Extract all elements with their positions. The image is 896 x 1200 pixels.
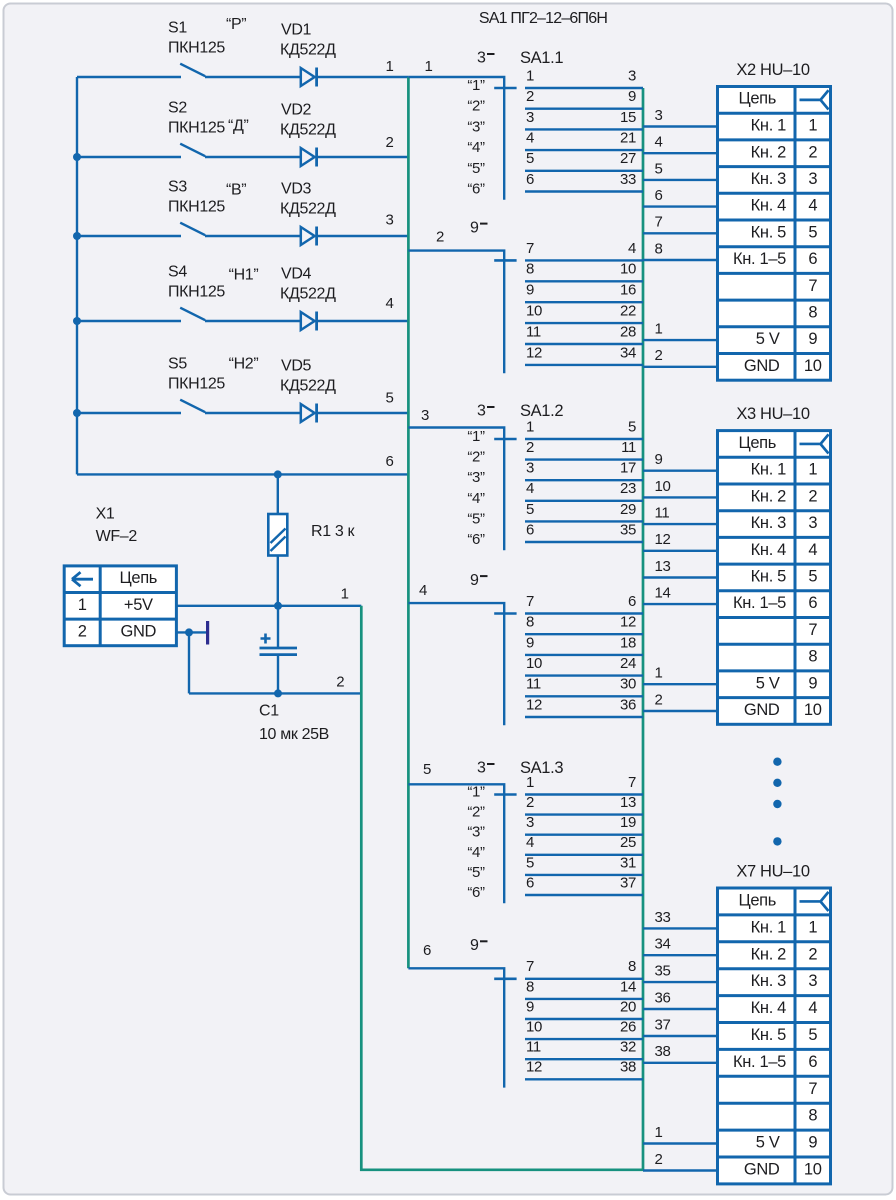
svg-text:WF–2: WF–2 bbox=[96, 528, 138, 545]
svg-text:S1: S1 bbox=[168, 20, 187, 37]
svg-text:“5”: “5” bbox=[467, 160, 485, 177]
svg-text:7: 7 bbox=[526, 593, 534, 610]
svg-text:7: 7 bbox=[655, 214, 663, 231]
svg-text:1: 1 bbox=[425, 58, 433, 75]
svg-text:X7 HU–10: X7 HU–10 bbox=[736, 863, 810, 881]
svg-text:S4: S4 bbox=[168, 264, 187, 281]
svg-text:1: 1 bbox=[808, 918, 817, 936]
wire bundle to X7 row bbox=[643, 981, 718, 983]
svg-text:3: 3 bbox=[477, 50, 486, 67]
svg-text:2: 2 bbox=[526, 794, 534, 811]
svg-text:10: 10 bbox=[620, 261, 636, 278]
svg-text:Цепь: Цепь bbox=[738, 891, 776, 909]
svg-text:37: 37 bbox=[620, 874, 636, 891]
svg-text:9: 9 bbox=[526, 282, 534, 299]
svg-text:R1 3 к: R1 3 к bbox=[311, 523, 355, 540]
svg-text:4: 4 bbox=[386, 295, 394, 312]
svg-text:Кн. 3: Кн. 3 bbox=[751, 170, 786, 188]
svg-text:Кн. 1: Кн. 1 bbox=[751, 117, 786, 135]
svg-text:Кн. 5: Кн. 5 bbox=[751, 1026, 786, 1044]
svg-text:2: 2 bbox=[386, 134, 394, 151]
svg-text:9: 9 bbox=[470, 937, 479, 954]
wire bundle to X3 row bbox=[643, 576, 718, 578]
svg-text:“Д”: “Д” bbox=[228, 118, 248, 135]
svg-text:“5”: “5” bbox=[467, 510, 485, 527]
contact line pin 5 bbox=[525, 520, 643, 522]
contact line pin 1 bbox=[525, 793, 643, 795]
svg-text:10: 10 bbox=[804, 701, 822, 719]
svg-text:5 V: 5 V bbox=[756, 330, 780, 348]
wire bundle to X2 row bbox=[643, 125, 718, 127]
svg-text:3: 3 bbox=[808, 514, 817, 532]
wire exit 3 to switch deck bbox=[408, 428, 504, 551]
svg-text:3: 3 bbox=[386, 211, 394, 228]
svg-text:26: 26 bbox=[620, 1019, 636, 1036]
svg-text:20: 20 bbox=[620, 998, 636, 1015]
svg-text:S3: S3 bbox=[168, 179, 187, 196]
svg-text:“Н2”: “Н2” bbox=[229, 356, 259, 373]
connector X1 table bbox=[64, 566, 176, 646]
junction node 1 (C1 top) bbox=[274, 602, 282, 610]
svg-text:4: 4 bbox=[526, 834, 534, 851]
svg-text:“5”: “5” bbox=[467, 864, 485, 881]
svg-text:9: 9 bbox=[655, 451, 663, 468]
svg-text:7: 7 bbox=[628, 774, 636, 791]
svg-text:VD5: VD5 bbox=[281, 358, 312, 375]
svg-text:33: 33 bbox=[655, 909, 671, 926]
svg-text:10 мк 25В: 10 мк 25В bbox=[259, 726, 329, 743]
svg-text:10: 10 bbox=[526, 303, 542, 320]
svg-text:5: 5 bbox=[526, 501, 534, 518]
svg-text:38: 38 bbox=[655, 1043, 671, 1060]
svg-text:9: 9 bbox=[808, 674, 817, 692]
svg-text:32: 32 bbox=[620, 1039, 636, 1056]
contact line pin 9 bbox=[525, 654, 643, 656]
svg-text:КД522Д: КД522Д bbox=[280, 286, 336, 303]
contact line pin 4 bbox=[525, 854, 643, 856]
capacitor C1 polarized bbox=[260, 634, 298, 655]
switch S1 symbol bbox=[77, 64, 301, 77]
group bundle line (left) bbox=[407, 77, 410, 968]
svg-text:38: 38 bbox=[620, 1059, 636, 1076]
connector X7 table bbox=[718, 888, 831, 1184]
svg-text:6: 6 bbox=[526, 171, 534, 188]
junction on left bus row S5 bbox=[73, 409, 81, 417]
svg-text:6: 6 bbox=[386, 453, 394, 470]
svg-text:SA1.1: SA1.1 bbox=[520, 49, 563, 67]
common contact label 9&#175; bbox=[470, 219, 488, 236]
svg-text:3: 3 bbox=[655, 107, 663, 124]
svg-text:9: 9 bbox=[628, 88, 636, 105]
svg-text:11: 11 bbox=[526, 1039, 541, 1056]
X2 header socket symbol bbox=[800, 90, 829, 109]
svg-text:“Н1”: “Н1” bbox=[229, 266, 259, 283]
svg-text:36: 36 bbox=[620, 696, 636, 713]
contact line pin 6 bbox=[525, 894, 643, 896]
svg-text:8: 8 bbox=[655, 240, 663, 257]
svg-text:5: 5 bbox=[808, 223, 817, 241]
svg-text:“3”: “3” bbox=[467, 824, 485, 841]
svg-text:33: 33 bbox=[620, 171, 636, 188]
svg-text:КД522Д: КД522Д bbox=[280, 201, 336, 218]
svg-text:14: 14 bbox=[655, 585, 671, 602]
wire bundle to X3 row bbox=[643, 470, 718, 472]
wire left bus vertical bbox=[76, 77, 78, 474]
svg-text:1: 1 bbox=[808, 117, 817, 135]
contact line pin 11 bbox=[525, 343, 643, 345]
svg-text:“1”: “1” bbox=[467, 784, 485, 801]
svg-text:6: 6 bbox=[808, 250, 817, 268]
contact line pin 10 bbox=[525, 322, 643, 324]
svg-text:28: 28 bbox=[620, 323, 636, 340]
svg-text:1: 1 bbox=[526, 774, 534, 791]
contact line pin 7 bbox=[525, 259, 643, 261]
wire exit 1 to switch deck bbox=[408, 77, 504, 200]
svg-text:7: 7 bbox=[808, 1080, 817, 1098]
svg-text:10: 10 bbox=[526, 655, 542, 672]
svg-text:X3 HU–10: X3 HU–10 bbox=[736, 405, 810, 423]
svg-text:35: 35 bbox=[620, 521, 636, 538]
svg-text:Кн. 2: Кн. 2 bbox=[751, 487, 786, 505]
svg-text:15: 15 bbox=[620, 109, 636, 126]
wire bundle to X2 row bbox=[643, 179, 718, 181]
svg-text:SA1 ПГ2–12–6П6Н: SA1 ПГ2–12–6П6Н bbox=[479, 10, 607, 27]
svg-text:5: 5 bbox=[808, 1026, 817, 1044]
X1 header plug arrow symbol bbox=[72, 572, 93, 586]
svg-text:2: 2 bbox=[526, 439, 534, 456]
svg-text:GND: GND bbox=[744, 357, 780, 375]
junction GND node bbox=[185, 628, 193, 636]
wire bundle to X2 row bbox=[643, 259, 718, 261]
svg-text:6: 6 bbox=[655, 187, 663, 204]
contact line pin 2 bbox=[525, 458, 643, 460]
svg-text:12: 12 bbox=[526, 344, 542, 361]
svg-text:ПКН125: ПКН125 bbox=[168, 284, 225, 301]
contact line pin 2 bbox=[525, 107, 643, 109]
svg-text:Кн. 2: Кн. 2 bbox=[751, 945, 786, 963]
contact line pin 3 bbox=[525, 834, 643, 836]
svg-text:8: 8 bbox=[808, 1107, 817, 1125]
svg-text:3: 3 bbox=[477, 403, 486, 420]
svg-text:“6”: “6” bbox=[467, 884, 485, 901]
svg-text:1: 1 bbox=[808, 461, 817, 479]
wire C1 to node 2 bbox=[277, 656, 279, 694]
svg-text:“4”: “4” bbox=[467, 844, 485, 861]
svg-text:Кн. 3: Кн. 3 bbox=[751, 972, 786, 990]
svg-text:Кн. 5: Кн. 5 bbox=[751, 568, 786, 586]
svg-text:3: 3 bbox=[808, 972, 817, 990]
svg-text:23: 23 bbox=[620, 480, 636, 497]
svg-text:34: 34 bbox=[655, 936, 671, 953]
contact line pin 10 bbox=[525, 1038, 643, 1040]
common contact label 3&#175; bbox=[477, 403, 495, 420]
svg-text:5: 5 bbox=[526, 150, 534, 167]
svg-text:27: 27 bbox=[620, 150, 636, 167]
svg-text:11: 11 bbox=[526, 323, 541, 340]
svg-text:6: 6 bbox=[808, 1053, 817, 1071]
svg-text:5: 5 bbox=[655, 160, 663, 177]
svg-text:10: 10 bbox=[804, 357, 822, 375]
svg-text:+5V: +5V bbox=[124, 596, 153, 614]
wiper tick mark bbox=[494, 259, 516, 262]
svg-text:12: 12 bbox=[526, 1059, 542, 1076]
switch S3 symbol bbox=[77, 223, 301, 236]
wire bundle to X7 row bbox=[643, 954, 718, 956]
svg-text:6: 6 bbox=[423, 942, 431, 959]
wire bundle to X7 row bbox=[643, 1062, 718, 1064]
svg-text:5 V: 5 V bbox=[756, 674, 780, 692]
svg-text:“4”: “4” bbox=[467, 139, 485, 156]
svg-text:Кн. 2: Кн. 2 bbox=[751, 143, 786, 161]
svg-text:9: 9 bbox=[470, 219, 479, 236]
svg-text:X1: X1 bbox=[96, 506, 115, 523]
switch S2 symbol bbox=[77, 144, 301, 157]
wire GND bottom to node 2 bbox=[189, 692, 361, 694]
wire bundle to X7 row bbox=[643, 1035, 718, 1037]
contact line pin 3 bbox=[525, 479, 643, 481]
contact line pin 6 bbox=[525, 541, 643, 543]
svg-text:2: 2 bbox=[526, 88, 534, 105]
svg-text:6: 6 bbox=[808, 594, 817, 612]
wire bundle to X2 row bbox=[643, 366, 718, 368]
svg-text:8: 8 bbox=[808, 304, 817, 322]
svg-text:КД522Д: КД522Д bbox=[280, 122, 336, 139]
svg-text:3: 3 bbox=[808, 170, 817, 188]
svg-text:“3”: “3” bbox=[467, 118, 485, 135]
svg-text:3: 3 bbox=[477, 760, 486, 777]
connector X3 table bbox=[718, 431, 831, 725]
svg-text:10: 10 bbox=[526, 1019, 542, 1036]
X3 header socket symbol bbox=[800, 434, 829, 453]
common contact label 3&#175; bbox=[477, 50, 495, 67]
svg-text:“2”: “2” bbox=[467, 98, 485, 115]
contact line pin 8 bbox=[525, 633, 643, 635]
contact line pin 12 bbox=[525, 364, 643, 366]
wiper tick mark bbox=[494, 793, 516, 796]
svg-text:7: 7 bbox=[808, 621, 817, 639]
svg-text:Кн. 1–5: Кн. 1–5 bbox=[733, 1053, 786, 1071]
svg-text:Кн. 1: Кн. 1 bbox=[751, 461, 786, 479]
svg-text:КД522Д: КД522Д bbox=[280, 42, 336, 59]
svg-text:22: 22 bbox=[620, 303, 636, 320]
svg-text:VD2: VD2 bbox=[281, 102, 312, 119]
svg-text:14: 14 bbox=[620, 978, 636, 995]
svg-text:Кн. 1–5: Кн. 1–5 bbox=[733, 250, 786, 268]
svg-text:8: 8 bbox=[526, 261, 534, 278]
svg-text:“2”: “2” bbox=[467, 804, 485, 821]
wire +5V from X1 to node 1 bbox=[176, 605, 361, 607]
switch S5 symbol bbox=[77, 400, 301, 413]
svg-text:“1”: “1” bbox=[467, 77, 485, 94]
svg-text:1: 1 bbox=[341, 585, 349, 602]
svg-text:2: 2 bbox=[655, 1151, 663, 1168]
contact line pin 12 bbox=[525, 716, 643, 718]
svg-text:12: 12 bbox=[620, 614, 636, 631]
junction node 2 (C1 bottom) bbox=[274, 689, 282, 697]
svg-text:4: 4 bbox=[808, 541, 817, 559]
svg-text:4: 4 bbox=[628, 240, 636, 257]
svg-text:1: 1 bbox=[386, 58, 394, 75]
contact line pin 8 bbox=[525, 280, 643, 282]
diode VD4 bbox=[301, 312, 317, 331]
contact line pin 5 bbox=[525, 170, 643, 172]
svg-text:5: 5 bbox=[423, 761, 431, 778]
svg-text:19: 19 bbox=[620, 814, 636, 831]
contact line pin 4 bbox=[525, 500, 643, 502]
svg-text:1: 1 bbox=[655, 1124, 663, 1141]
wire bundle to X7 row bbox=[643, 1008, 718, 1010]
svg-text:Цепь: Цепь bbox=[738, 90, 776, 108]
svg-text:11: 11 bbox=[621, 439, 636, 456]
svg-text:Цепь: Цепь bbox=[738, 434, 776, 452]
svg-text:1: 1 bbox=[526, 418, 534, 435]
junction on left bus row S3 bbox=[73, 232, 81, 240]
svg-text:3: 3 bbox=[628, 67, 636, 84]
svg-text:“4”: “4” bbox=[467, 490, 485, 507]
svg-text:35: 35 bbox=[655, 963, 671, 980]
wire bundle to X3 row bbox=[643, 603, 718, 605]
wire bundle to X3 row bbox=[643, 523, 718, 525]
svg-text:7: 7 bbox=[808, 277, 817, 295]
svg-text:2: 2 bbox=[655, 347, 663, 364]
contact line pin 7 bbox=[525, 978, 643, 980]
svg-text:S5: S5 bbox=[168, 356, 187, 373]
svg-text:5: 5 bbox=[628, 418, 636, 435]
contact line pin 8 bbox=[525, 998, 643, 1000]
svg-text:25: 25 bbox=[620, 834, 636, 851]
svg-text:“6”: “6” bbox=[467, 181, 485, 198]
svg-text:4: 4 bbox=[419, 582, 427, 599]
junction on left bus row S4 bbox=[73, 317, 81, 325]
ellipsis dots (omitted connectors X4-X6) bbox=[773, 758, 781, 846]
common contact label 9&#175; bbox=[470, 937, 488, 954]
wire bundle to X7 row bbox=[643, 1169, 718, 1171]
svg-text:C1: C1 bbox=[259, 703, 279, 720]
svg-text:X2 HU–10: X2 HU–10 bbox=[736, 61, 810, 79]
svg-text:8: 8 bbox=[526, 614, 534, 631]
svg-text:2: 2 bbox=[655, 691, 663, 708]
svg-text:VD3: VD3 bbox=[281, 181, 312, 198]
svg-text:1: 1 bbox=[526, 67, 534, 84]
wire bundle to X3 row bbox=[643, 710, 718, 712]
junction node row6 / R1 bbox=[274, 470, 282, 478]
wire R1 to node 1 bbox=[277, 556, 279, 606]
wire bundle to X2 row bbox=[643, 339, 718, 341]
svg-text:34: 34 bbox=[620, 344, 636, 361]
common contact label 3&#175; bbox=[477, 760, 495, 777]
diode VD5 bbox=[301, 404, 317, 423]
svg-text:VD4: VD4 bbox=[281, 266, 312, 283]
wire GND from X1 bbox=[176, 631, 206, 633]
wire GND down bbox=[188, 632, 190, 693]
svg-text:Кн. 3: Кн. 3 bbox=[751, 514, 786, 532]
wire bundle to X3 row bbox=[643, 496, 718, 498]
diode VD3 bbox=[301, 227, 317, 246]
svg-text:29: 29 bbox=[620, 501, 636, 518]
wire bundle to X7 row bbox=[643, 1142, 718, 1144]
svg-text:5 V: 5 V bbox=[756, 1134, 780, 1152]
wire diode VD5 to bundle bbox=[317, 412, 409, 414]
svg-text:Кн. 1–5: Кн. 1–5 bbox=[733, 594, 786, 612]
svg-text:4: 4 bbox=[808, 197, 817, 215]
svg-text:3: 3 bbox=[526, 109, 534, 126]
svg-text:12: 12 bbox=[526, 696, 542, 713]
svg-text:6: 6 bbox=[526, 521, 534, 538]
svg-text:12: 12 bbox=[655, 531, 671, 548]
svg-text:3: 3 bbox=[526, 460, 534, 477]
svg-text:4: 4 bbox=[808, 999, 817, 1017]
svg-text:2: 2 bbox=[336, 674, 344, 691]
svg-text:11: 11 bbox=[526, 676, 541, 693]
svg-text:“2”: “2” bbox=[467, 449, 485, 466]
svg-text:2: 2 bbox=[808, 487, 817, 505]
svg-text:16: 16 bbox=[620, 282, 636, 299]
svg-text:“Р”: “Р” bbox=[226, 16, 246, 33]
svg-text:“1”: “1” bbox=[467, 428, 485, 445]
svg-text:2: 2 bbox=[436, 228, 444, 245]
wire exit 4 to switch deck bbox=[408, 603, 504, 725]
wire exit 5 to switch deck bbox=[408, 784, 504, 903]
svg-text:24: 24 bbox=[620, 655, 636, 672]
svg-text:Кн. 5: Кн. 5 bbox=[751, 223, 786, 241]
contact line pin 10 bbox=[525, 674, 643, 676]
svg-text:9: 9 bbox=[526, 998, 534, 1015]
wire exit 2 to switch deck bbox=[408, 251, 504, 374]
svg-text:9: 9 bbox=[808, 1134, 817, 1152]
contact line pin 9 bbox=[525, 1018, 643, 1020]
svg-text:“6”: “6” bbox=[467, 531, 485, 548]
contact line pin 5 bbox=[525, 874, 643, 876]
svg-text:30: 30 bbox=[620, 676, 636, 693]
svg-text:1: 1 bbox=[78, 596, 87, 614]
contact line pin 3 bbox=[525, 128, 643, 130]
contact line pin 7 bbox=[525, 612, 643, 614]
svg-text:3: 3 bbox=[526, 814, 534, 831]
wire diode VD2 to bundle bbox=[317, 156, 409, 158]
svg-text:ПКН125: ПКН125 bbox=[168, 40, 225, 57]
svg-text:4: 4 bbox=[526, 130, 534, 147]
svg-text:5: 5 bbox=[386, 389, 394, 406]
svg-text:3: 3 bbox=[421, 407, 429, 424]
connector X2 table bbox=[718, 87, 831, 381]
svg-text:37: 37 bbox=[655, 1016, 671, 1033]
wire bundle to X2 row bbox=[643, 232, 718, 234]
svg-text:18: 18 bbox=[620, 634, 636, 651]
contact line pin 9 bbox=[525, 301, 643, 303]
svg-text:4: 4 bbox=[526, 480, 534, 497]
wire bundle to X3 row bbox=[643, 683, 718, 685]
svg-text:8: 8 bbox=[808, 648, 817, 666]
wiper tick mark bbox=[494, 612, 516, 615]
wiper tick mark bbox=[494, 977, 516, 980]
svg-text:6: 6 bbox=[628, 593, 636, 610]
svg-text:9: 9 bbox=[808, 330, 817, 348]
svg-text:10: 10 bbox=[655, 478, 671, 495]
wire diode VD3 to bundle bbox=[317, 235, 409, 237]
contact line pin 11 bbox=[525, 1058, 643, 1060]
wiper tick mark bbox=[494, 438, 516, 441]
wire row6 to R1 bbox=[277, 474, 279, 514]
contact line pin 6 bbox=[525, 190, 643, 192]
svg-text:9: 9 bbox=[470, 572, 479, 589]
svg-text:31: 31 bbox=[620, 854, 636, 871]
svg-text:2: 2 bbox=[808, 945, 817, 963]
svg-text:36: 36 bbox=[655, 989, 671, 1006]
svg-text:1: 1 bbox=[655, 665, 663, 682]
svg-text:Кн. 4: Кн. 4 bbox=[751, 999, 786, 1017]
svg-text:5: 5 bbox=[808, 568, 817, 586]
diode VD1 bbox=[301, 68, 317, 87]
